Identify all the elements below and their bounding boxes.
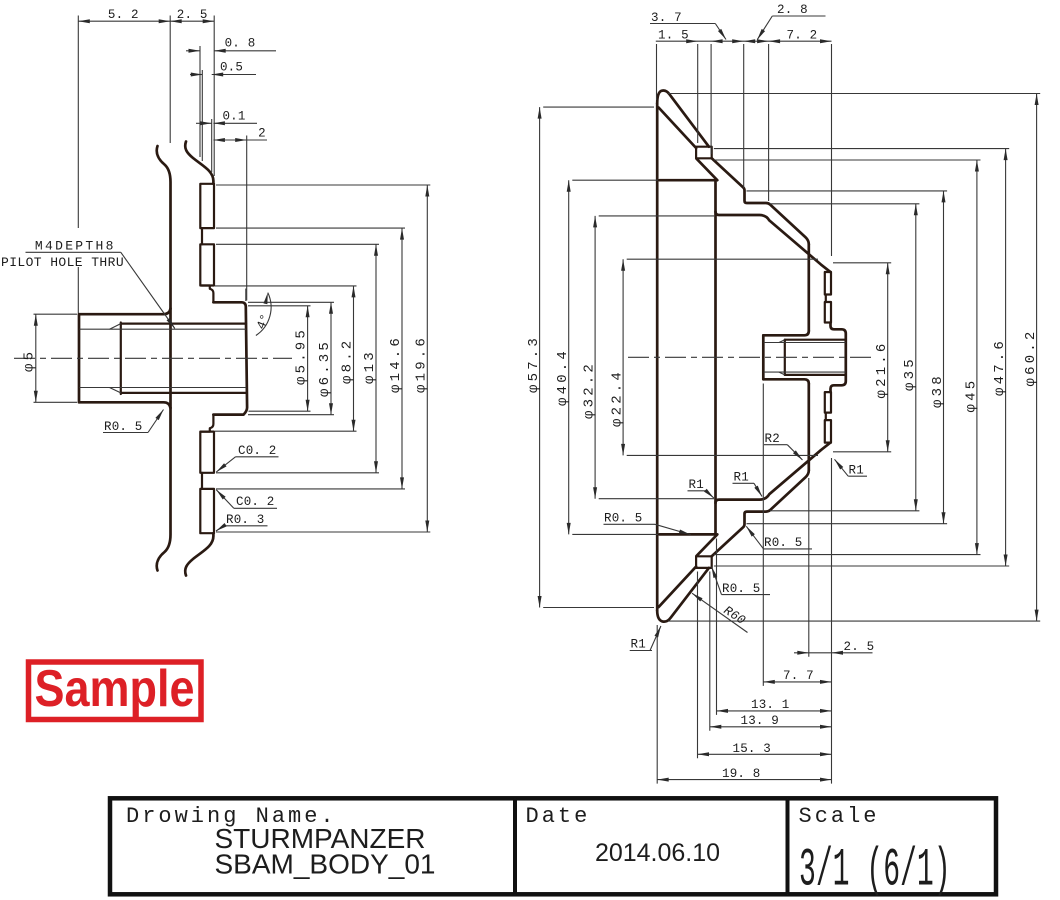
svg-text:7. 7: 7. 7 [783, 669, 814, 683]
svg-text:2. 8: 2. 8 [777, 3, 808, 17]
left view: horizontal centerline [14, 357, 292, 359]
svg-text:φ35: φ35 [902, 356, 918, 391]
right view: horizontal centerline [628, 356, 874, 358]
title block table [110, 798, 996, 894]
svg-text:3/1 (6/1): 3/1 (6/1) [799, 839, 951, 900]
right view: hub groove box 3 [825, 392, 831, 413]
svg-text:R1: R1 [689, 478, 704, 492]
svg-text:R0. 5: R0. 5 [722, 582, 761, 596]
svg-text:0.1: 0.1 [222, 110, 245, 124]
top dimensions 1.5 3.7 2.8 7.2 [656, 44, 658, 100]
svg-text:PILOT HOLE THRU: PILOT HOLE THRU [1, 255, 124, 270]
dimension 0.8 [199, 46, 201, 157]
right view: hub groove box 4 [825, 420, 831, 443]
svg-text:M4DEPTH8: M4DEPTH8 [35, 238, 116, 253]
left view: disc left face with break whips [157, 146, 171, 571]
dimension phi5.95 [248, 305, 311, 307]
bottom dimensions 2.5 7.7 13.1 13.9 15.3 19.8 [831, 458, 833, 784]
svg-text:13. 1: 13. 1 [751, 698, 790, 712]
right view: hub web left face upper [807, 244, 810, 331]
right view: hub groove box 2 [825, 302, 831, 323]
svg-text:3. 7: 3. 7 [651, 11, 682, 25]
svg-text:R1: R1 [631, 638, 646, 652]
svg-text:SBAM_BODY_01: SBAM_BODY_01 [215, 849, 436, 880]
dimension 2 [246, 136, 248, 301]
svg-text:0. 8: 0. 8 [225, 37, 256, 51]
svg-text:φ6.35: φ6.35 [317, 339, 333, 397]
right view: boss top with fillet [763, 331, 809, 335]
svg-text:φ21.6: φ21.6 [874, 340, 890, 398]
svg-text:C0. 2: C0. 2 [236, 495, 275, 509]
svg-text:φ5.95: φ5.95 [294, 327, 310, 385]
right view: boss bottom with fillet [763, 379, 809, 383]
right view: hub recessed face between boxes [825, 295, 827, 303]
right view: top rim tip cap R1 + outer cone slant [657, 91, 709, 147]
right view: upper slant square to bore [697, 159, 718, 181]
svg-text:φ57.3: φ57.3 [526, 335, 542, 393]
svg-text:φ45: φ45 [963, 378, 979, 413]
left view: M4 thread major lines [121, 323, 246, 325]
svg-text:R2: R2 [765, 432, 780, 446]
svg-text:R0. 5: R0. 5 [104, 420, 143, 434]
svg-text:φ5: φ5 [22, 349, 38, 372]
left view: groove box 4 (R0.3) [200, 489, 214, 533]
right view: wheel left face [656, 104, 659, 611]
svg-text:2: 2 [258, 127, 266, 141]
svg-text:φ8.2: φ8.2 [340, 338, 356, 384]
right view: upper web upper surface (square to hub face) [712, 158, 809, 244]
svg-text:R0. 5: R0. 5 [764, 536, 803, 550]
right view: phi40.4 bore lower line [660, 533, 716, 536]
left view: phi5 boss left face [78, 314, 81, 402]
right view: phi5 boss left face [762, 335, 765, 379]
svg-text:Sample: Sample [35, 660, 195, 718]
svg-text:7. 2: 7. 2 [787, 29, 818, 43]
right view: hub right face pocket [831, 323, 846, 393]
right view: upper relief square groove [696, 147, 712, 159]
left view: right face lower whip [185, 533, 213, 575]
svg-text:φ32.2: φ32.2 [582, 361, 598, 419]
right view: hub groove box 1 [825, 272, 831, 295]
svg-text:φ22.4: φ22.4 [610, 369, 626, 427]
svg-text:φ38: φ38 [930, 373, 946, 408]
svg-text:0.5: 0.5 [220, 60, 243, 74]
left side diameter dimensions [543, 106, 654, 108]
dimension phi14.6 [216, 227, 405, 229]
left view: groove box 3 [200, 432, 214, 473]
right view: upper web lower surface (phi32.2 bore line, R1/R2 fillets) [716, 212, 831, 272]
dimension phi5 [34, 313, 78, 315]
right view: lower slant square to bore [697, 534, 718, 556]
svg-text:1. 5: 1. 5 [658, 29, 689, 43]
dimension phi8.2 [215, 285, 357, 287]
left view: groove box 2 [200, 244, 214, 285]
left view: center pocket (phi6.35 / phi5.95 cone) [213, 302, 247, 414]
right view: hub recessed face between boxes lower [825, 413, 827, 421]
svg-text:Scale: Scale [799, 804, 880, 829]
right view: M4 thread major lines [785, 339, 846, 341]
dimension phi6.35 [248, 301, 334, 303]
svg-text:φ19.6: φ19.6 [413, 335, 429, 393]
right view: recess bottom face [714, 180, 717, 534]
angle 4deg arc [256, 293, 271, 336]
svg-text:R1: R1 [734, 471, 749, 485]
svg-text:R1: R1 [849, 464, 864, 478]
left view: recessed face between boxes 3-4 [201, 473, 203, 489]
svg-text:R0. 5: R0. 5 [604, 512, 643, 526]
dimension 0.5 [201, 70, 203, 161]
right view: bottom inner rim slant [659, 567, 697, 608]
svg-text:φ13: φ13 [362, 349, 378, 384]
right view: lower web upper surface (phi32.2 bore line, R1/R2 fillets) [716, 443, 831, 503]
svg-text:φ40.4: φ40.4 [555, 348, 571, 406]
right view: thread depth end line [784, 340, 786, 375]
left view: thread depth end line with runout marks [120, 323, 122, 395]
left view: recessed face between boxes 1-2 [201, 228, 203, 244]
right view: top inner rim slant [659, 108, 697, 149]
right view: bottom rim tip cap R1 + outer cone slant R60 [657, 568, 709, 622]
right side diameter dimensions [833, 262, 891, 264]
svg-text:19. 8: 19. 8 [722, 767, 761, 781]
right view: pilot hole lines [764, 342, 846, 344]
Sample stamp box [29, 662, 202, 720]
right view: lower relief square groove [696, 556, 712, 568]
left view: pilot hole phi3.3 lines [80, 328, 246, 330]
dimension phi13 [216, 243, 379, 245]
svg-text:Date: Date [526, 804, 591, 829]
svg-text:φ60.2: φ60.2 [1023, 328, 1039, 386]
left view: groove box 1 [200, 184, 214, 228]
right view: phi40.4 bore upper line [660, 179, 716, 182]
svg-text:2014.06.10: 2014.06.10 [595, 839, 720, 867]
svg-text:R0. 3: R0. 3 [226, 513, 265, 527]
svg-text:13. 9: 13. 9 [741, 714, 780, 728]
left view: face step below box2 (C0.2) [202, 286, 214, 303]
dimension 5.2 / 2.5 top [77, 16, 79, 229]
svg-text:C0. 2: C0. 2 [238, 444, 277, 458]
svg-text:2. 5: 2. 5 [177, 8, 208, 22]
svg-text:φ14.6: φ14.6 [388, 335, 404, 393]
svg-text:2. 5: 2. 5 [844, 640, 875, 654]
left view: boss bottom with R0.5 fillet [79, 402, 171, 408]
dimension 0.1 [211, 119, 213, 172]
left view: boss top with R0.5 fillet [79, 309, 171, 315]
svg-text:φ47.6: φ47.6 [992, 338, 1008, 396]
dimension phi19.6 [216, 184, 430, 186]
right view: lower web lower surface (hub face to square) [712, 470, 809, 556]
left view: right face upper whip [185, 142, 213, 184]
svg-text:5. 2: 5. 2 [108, 8, 139, 22]
left view: face step above box3 (C0.2) [202, 415, 214, 432]
right view: hub web left face lower [807, 384, 810, 471]
svg-text:15. 3: 15. 3 [733, 742, 772, 756]
